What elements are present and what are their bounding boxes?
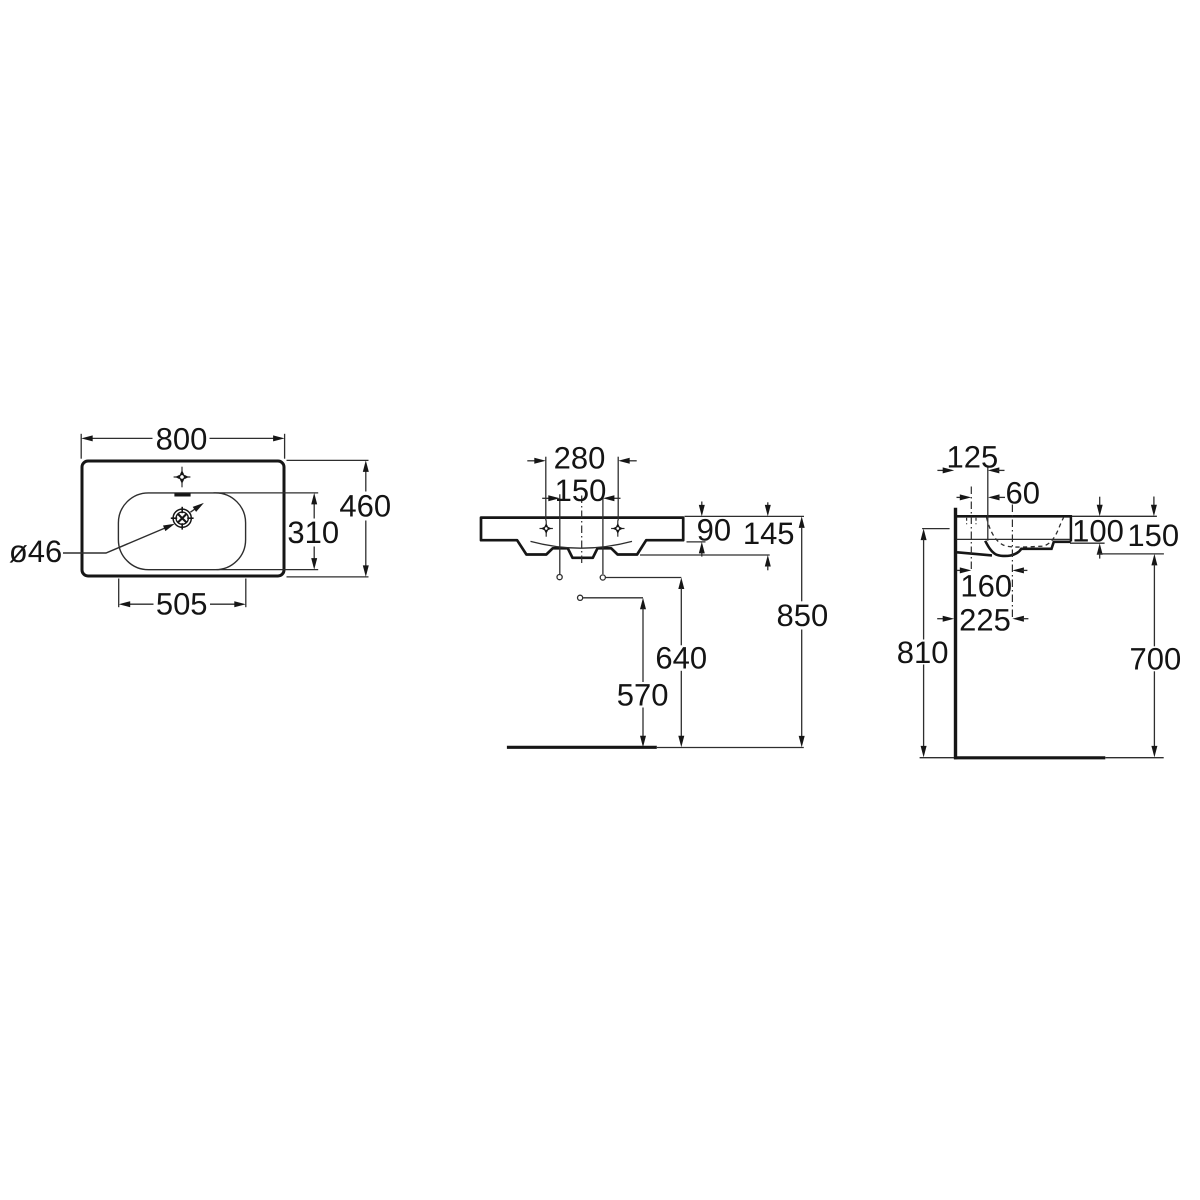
svg-text:505: 505 bbox=[156, 587, 208, 622]
dimension 280: extension lines bbox=[545, 457, 547, 521]
dimension 460: dimension line and arrows bbox=[365, 471, 367, 492]
dimension 505: extension lines bbox=[118, 579, 120, 608]
side view: overflow axis extension line bbox=[987, 468, 989, 541]
dimension 640: reference line bbox=[606, 577, 682, 579]
svg-text:150: 150 bbox=[1127, 518, 1179, 553]
front view: right fixing hole circle bbox=[600, 575, 605, 580]
plan view: drain symbol bbox=[171, 507, 194, 530]
front view: basin outline with mounting feet bbox=[481, 518, 683, 558]
dimension 145: bottom extension line bbox=[640, 554, 770, 556]
svg-text:640: 640 bbox=[655, 641, 707, 676]
svg-text:280: 280 bbox=[554, 440, 606, 475]
dimension 60: arrows bbox=[957, 496, 963, 498]
svg-text:225: 225 bbox=[959, 603, 1011, 638]
side view: tap hole axis line bbox=[970, 487, 972, 571]
plan view: bowl outline bbox=[118, 493, 245, 570]
svg-text:125: 125 bbox=[947, 440, 999, 475]
dimension 800: extension lines bbox=[80, 434, 82, 459]
svg-text:570: 570 bbox=[617, 678, 669, 713]
svg-text:60: 60 bbox=[1005, 476, 1039, 511]
dimension 570: dimension line and arrows bbox=[640, 598, 646, 610]
front view: top extension line bbox=[685, 515, 805, 517]
svg-text:810: 810 bbox=[897, 635, 949, 670]
side view: drain axis line bbox=[1011, 505, 1013, 619]
svg-text:90: 90 bbox=[697, 513, 731, 548]
svg-text:150: 150 bbox=[555, 473, 607, 508]
dimension 850: dimension line and arrows bbox=[799, 516, 805, 528]
side view: floor extension right bbox=[1105, 757, 1163, 759]
dimension 150: arrows bbox=[542, 497, 550, 499]
svg-text:460: 460 bbox=[339, 489, 391, 524]
dimension 505: dimension line and arrows bbox=[129, 603, 154, 605]
svg-text:ø46: ø46 bbox=[9, 534, 62, 569]
side view: top extension line bbox=[1072, 515, 1157, 517]
side view: rim bottom line bbox=[957, 538, 1071, 540]
side view: wall line bbox=[954, 508, 957, 760]
side view: floor line bbox=[954, 756, 1105, 759]
dimension 810: dimension line and arrows bbox=[921, 529, 927, 541]
plan view: drain outlet arrow bbox=[190, 507, 197, 512]
dimension 90: arrows and extension bbox=[701, 502, 703, 506]
front view: floor extension line bbox=[657, 747, 804, 749]
front view: left fixing hole circle bbox=[557, 575, 562, 580]
dimension 310: extension lines bbox=[214, 492, 319, 494]
dimension 150: extension lines bbox=[559, 494, 561, 574]
dimension 150 side: bottom extension line bbox=[1097, 553, 1164, 555]
svg-text:850: 850 bbox=[777, 598, 829, 633]
dimension 100: arrows bbox=[1099, 497, 1101, 506]
dimension 225: arrows bbox=[937, 618, 944, 620]
side view: basin top edge bbox=[956, 515, 1072, 518]
dimension 310: dimension line and arrows bbox=[313, 503, 315, 518]
dimension 125: arrows bbox=[937, 469, 945, 471]
side view: hidden bowl interior (dashed) bbox=[987, 518, 1064, 548]
svg-text:700: 700 bbox=[1130, 641, 1182, 676]
dimension 640: dimension line and arrows bbox=[678, 578, 684, 590]
side view: floor extension left bbox=[920, 757, 954, 759]
side view: basin underside profile bbox=[957, 552, 992, 555]
plan view: basin outline bbox=[82, 461, 284, 576]
front view: centre line bbox=[581, 496, 583, 567]
dimension 800: dimension line and arrows bbox=[92, 437, 153, 439]
side view: basin front edge bbox=[1070, 515, 1073, 541]
dimension 460: extension lines bbox=[287, 459, 369, 461]
svg-text:160: 160 bbox=[960, 568, 1012, 603]
front view: bowl bottom curve bbox=[531, 541, 633, 548]
svg-text:145: 145 bbox=[743, 516, 795, 551]
dimension 150 side: arrows bbox=[1153, 497, 1155, 506]
plan view: tap hole symbol bbox=[174, 467, 191, 488]
svg-text:310: 310 bbox=[287, 515, 339, 550]
dimension 145: arrows bbox=[767, 502, 769, 506]
dimension 570: reference line bbox=[583, 597, 643, 599]
dimension 280: arrows bbox=[527, 460, 536, 462]
plan view: overflow slot bbox=[174, 493, 190, 496]
front view: floor line bbox=[507, 746, 657, 749]
plan view: leader line for drain diameter bbox=[63, 526, 170, 553]
front view: right tap hole symbol bbox=[611, 520, 624, 536]
front view: left tap hole symbol bbox=[540, 520, 553, 536]
dimension 160: arrows bbox=[957, 569, 962, 571]
svg-text:100: 100 bbox=[1072, 513, 1124, 548]
dimension 810: top extension line bbox=[922, 528, 950, 530]
dimension 700: dimension line and arrows bbox=[1151, 554, 1157, 566]
side view: hidden tap hole (dashed) bbox=[966, 518, 968, 524]
front view: drain outlet circle bbox=[578, 595, 583, 600]
dimension 100: bottom extension line bbox=[1070, 542, 1105, 544]
svg-text:800: 800 bbox=[156, 421, 208, 456]
